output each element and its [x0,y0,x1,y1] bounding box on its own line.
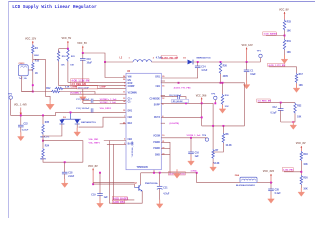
test point TP4 [202,134,209,141]
svg-text:86.7K: 86.7K [40,158,46,160]
wire right stubs [161,81,165,123]
svg-text:FB1: FB1 [156,86,161,88]
svg-text:100K: 100K [34,55,40,57]
svg-text:4-OD1_TY1_FB1: 4-OD1_TY1_FB1 [174,87,192,90]
resistor R18 [300,151,308,166]
wire VIN drop [105,62,127,78]
svg-text:LCD Supply With Linear Regulat: LCD Supply With Linear Regulator [12,5,97,10]
wire R4-R10 [32,54,34,62]
capacitor C28 [268,183,281,199]
svg-text:D1: D1 [183,57,187,59]
net label 3-OD_BASE1 b [112,197,129,201]
svg-text:PGND: PGND [153,142,160,144]
resistor R30 [300,175,308,191]
resistor R33 [283,20,291,33]
svg-text:0.1uF: 0.1uF [271,113,278,115]
svg-text:C15 | 3.3nF: C15 | 3.3nF [78,87,90,89]
ground COMP [46,100,54,110]
svg-text:C10: C10 [87,59,92,61]
svg-text:R4: R4 [35,47,39,50]
ground rail [173,169,180,178]
svg-text:3-5_REG_EN: 3-5_REG_EN [72,84,87,86]
diode D1 [183,57,211,64]
svg-text:10K: 10K [287,30,292,32]
wire D3 right leg [76,124,78,132]
svg-text:3-OD_FB1: 3-OD_FB1 [283,170,294,172]
power flag VCC_12V [25,37,36,44]
capacitor C22 [18,115,29,136]
svg-text:1: 1 [129,57,131,59]
ground C21 [156,200,163,209]
resistor R24 [40,145,50,161]
svg-text:GND: GND [155,154,160,156]
svg-text:VCOM: VCOM [153,136,160,138]
capacitor C18 [62,162,75,183]
wire rail step [197,173,240,183]
svg-text:1uF: 1uF [104,197,109,199]
resistor R23 [67,49,76,67]
svg-text:0.22uF: 0.22uF [22,129,29,131]
wire L2 to D1 [151,61,187,63]
wire D3 to divider mid [44,124,62,136]
svg-text:BLM18AG102SN1D: BLM18AG102SN1D [236,184,255,187]
svg-text:VCC_12V: VCC_12V [25,37,36,40]
power flag VCC_8V bot [88,165,98,185]
svg-text:4.3K: 4.3K [65,86,70,89]
wire 5V to L2 [82,52,105,62]
svg-text:1uF: 1uF [195,156,200,158]
ground REG_EN [290,121,297,129]
svg-text:FB2: FB2 [128,117,133,119]
svg-text:C22: C22 [24,123,29,125]
ground R7 [210,163,217,172]
svg-text:VCC_5V: VCC_5V [62,37,72,40]
power flag VCC_8V mid [296,142,306,151]
ground C19 [97,199,104,208]
svg-text:806K,1%: 806K,1% [40,136,49,138]
op-amp U3 TPS65105 [123,70,165,170]
capacitor C12 [271,103,284,122]
ground R31 [281,55,288,64]
wire 1.17V EN [269,67,297,73]
net label 3-OD_FB1 r [282,168,301,172]
wire IC gnd stubs [161,142,170,172]
wire CM13 to chain [22,70,33,92]
resistor R31 [283,39,291,54]
svg-text:C19: C19 [91,194,96,196]
wire base label row [113,199,134,201]
wire bead out [257,182,273,184]
resistor R26 [219,62,228,78]
svg-text:C13 | 10.22uF: C13 | 10.22uF [76,108,90,110]
wire FB2 row [79,117,126,127]
svg-text:2: 2 [153,57,155,59]
wire REF row [120,123,126,125]
svg-text:EN: EN [128,80,132,82]
wire R33-R31 [284,31,286,40]
wire OUT3 rail [161,103,213,125]
svg-text:C18: C18 [68,173,73,175]
diode pair D3 BAT54SW [59,111,96,124]
resistor R36 [221,82,229,109]
test point TP6 [8,94,13,116]
wire COMP net [64,87,127,89]
svg-text:4.7uF: 4.7uF [201,69,208,72]
resistor R13 inline [55,87,64,89]
svg-text:PGND: PGND [153,148,160,150]
svg-text:10K: 10K [287,52,292,54]
net label 3-VGG_1_3v5 [168,172,185,176]
svg-text:U3: U3 [127,70,131,73]
svg-text:TP4: TP4 [202,134,207,137]
capacitor C19 [91,172,108,203]
svg-text:C28: C28 [275,189,280,191]
svg-text:VCOMIN: VCOMIN [128,92,137,94]
page border top [8,1,315,3]
capacitor C10 [80,53,92,97]
resistor R5 boxed [172,99,189,103]
wire base rail lower [93,184,134,187]
net label 3-5_REG_EN left [71,82,86,86]
net label 4-OD1_IND [161,56,179,60]
svg-text:C2-MODE: C2-MODE [150,99,161,101]
svg-text:10K: 10K [297,117,302,119]
ground C28 [268,195,275,204]
wire VCOM net [161,137,207,139]
ground C1 [243,80,250,89]
wire OUT2 loop [202,125,245,127]
svg-text:(LIGHTS): (LIGHTS) [170,123,180,125]
svg-text:R12: R12 [46,88,51,90]
resistor R35 [40,114,50,138]
power flag VCC_5V [62,37,72,49]
power flag VCC_8V top [279,8,289,19]
svg-text:11: 11 [123,92,126,94]
svg-text:Q1: Q1 [134,183,138,185]
net label VCOM_1_3v6 [187,135,202,137]
wire R26 to FB1 [220,74,222,84]
ferrite bead FB4 [235,174,257,187]
svg-text:VCC_8V: VCC_8V [279,8,289,11]
label COMP parts [65,86,106,90]
svg-text:16: 16 [162,85,165,87]
svg-text:VCC_8V: VCC_8V [296,142,306,145]
wire R12 row [22,92,96,95]
wire C1- row [83,101,126,105]
svg-text:R30: R30 [303,177,308,179]
svg-text:TP5: TP5 [211,94,216,96]
test point TP1 [257,50,262,62]
svg-text:10K: 10K [299,85,304,87]
resistor R4 [32,45,40,58]
inductor L2 [120,56,163,62]
net label 3-VDD_1_3v6 [191,171,198,174]
junction R26 [220,61,222,63]
svg-text:PMBT2222A: PMBT2222A [145,182,158,185]
page border left [8,1,10,218]
wire VGL rail [11,112,127,116]
wire gnd jog [46,92,51,101]
svg-text:C14: C14 [201,65,206,68]
svg-text:VIN: VIN [128,77,132,79]
wire VCOMIN [70,93,127,95]
svg-text:VGL_1_4V5: VGL_1_4V5 [14,104,27,107]
power flag VCC_3V6 [196,94,207,104]
net label 4-OD_1.17V_EN [268,63,286,67]
svg-text:R23: R23 [71,56,76,58]
capacitor C14 [161,62,208,78]
ground C10 [80,93,87,102]
wire FB4 net [104,141,126,204]
svg-text:R17: R17 [299,74,304,76]
svg-text:C1+: C1+ [128,99,133,101]
svg-text:VGL_DRV1: VGL_DRV1 [100,108,112,110]
wire D1 to 12V node [193,61,261,63]
svg-text:12: 12 [162,98,165,100]
wire divider mid [43,135,83,163]
net label 3-5_REG_EN [257,99,271,103]
svg-text:VCC_12V: VCC_12V [242,44,253,47]
junction L2 in [104,61,106,63]
wire R18-R30 [300,161,302,175]
svg-text:TP1: TP1 [257,50,262,52]
filter CM13 [18,63,28,80]
svg-text:FB4: FB4 [235,174,240,177]
svg-text:VGL_REF1: VGL_REF1 [89,143,101,145]
title [12,5,97,10]
svg-text:4-OD_1.17V_EN: 4-OD_1.17V_EN [72,80,90,83]
net label 4-OD1_1Y_FB1 [174,82,192,90]
ground C18 [61,179,68,188]
wire BASE net [107,144,126,200]
wire FB1 net [161,83,245,126]
svg-text:COMP: COMP [71,87,78,89]
svg-text:FB4: FB4 [128,138,133,141]
net label VGL_FB1 [89,139,100,141]
svg-text:2.2uF: 2.2uF [68,176,75,178]
net label VCOMIN_1 [70,93,82,95]
svg-text:R33: R33 [287,21,292,23]
svg-text:1K: 1K [35,73,38,75]
ground R17 [293,84,300,93]
capacitor C1 [244,62,256,84]
svg-text:VCOM_1_3v6: VCOM_1_3v6 [187,135,202,137]
svg-text:BAT54SWT1G: BAT54SWT1G [81,121,96,124]
wire EN net [68,62,126,83]
resistor R32 [294,103,302,119]
svg-text:VCOMC+_1_3v6: VCOMC+_1_3v6 [100,99,118,101]
svg-text:9: 9 [162,104,164,106]
svg-text:MBR0530T1G: MBR0530T1G [197,57,211,59]
svg-text:4: 4 [162,115,164,118]
power arrow VGL [20,108,22,116]
wire rail to L2 [105,61,133,63]
svg-text:10K: 10K [70,65,74,67]
svg-text:R7: R7 [215,150,219,152]
svg-text:10.2K: 10.2K [226,145,232,147]
svg-text:C21: C21 [163,188,168,190]
wire R30 gnd [300,185,302,192]
svg-text:R35: R35 [45,122,50,124]
power flag VCC_3V3 [263,170,275,183]
capacitor C8 [161,95,187,104]
svg-text:36: 36 [123,79,126,81]
wire REG_EN net [59,62,126,86]
ground C16 [188,157,195,166]
svg-text:10uF: 10uF [250,74,256,76]
svg-text:DR1: DR1 [128,111,133,113]
svg-text:OUT3: OUT3 [154,117,161,119]
svg-text:THERMAL_GND: THERMAL_GND [131,141,134,158]
net label 4-OD_1.17V_EN left [71,79,89,83]
svg-text:DR1: DR1 [155,77,160,79]
power flag VCC_5V in [77,42,87,53]
svg-text:C12: C12 [273,107,278,109]
wire R17 gnd [296,83,298,88]
junction divider [42,140,44,142]
wire join C12 R32 [281,114,295,125]
wire divider bottom [43,159,83,164]
ground C22 [18,132,25,141]
svg-text:10K: 10K [303,189,308,191]
ground R30 [298,188,305,197]
capacitor C13 row [76,108,112,112]
capacitor C21 [157,172,170,204]
svg-text:10K: 10K [61,65,65,67]
wire Q1 emitter [109,191,142,203]
svg-text:VCOMC-_1_3v6: VCOMC-_1_3v6 [100,102,117,104]
svg-text:R16: R16 [62,56,67,58]
svg-text:447K: 447K [223,75,229,78]
resistor R16 [57,51,66,67]
svg-text:R8: R8 [226,134,230,136]
svg-text:R5 | 49.9K: R5 | 49.9K [173,100,183,103]
svg-text:R18: R18 [303,154,308,156]
resistor R17 [295,73,303,87]
svg-text:10: 10 [162,135,165,137]
svg-text:R36: R36 [225,95,230,97]
svg-text:0.1uF: 0.1uF [275,193,282,195]
wire pullup tee [59,48,69,53]
ground D3 [74,128,81,137]
svg-text:C1-: C1- [128,102,132,104]
wire R10 bypass [33,59,46,91]
svg-text:TPS65105: TPS65105 [137,166,149,169]
svg-text:TP6: TP6 [8,94,13,96]
svg-text:52.4K: 52.4K [213,162,219,165]
svg-text:SUPP: SUPP [154,105,161,107]
svg-text:TxP_32L: TxP_32L [19,78,28,80]
svg-text:R32: R32 [297,105,302,107]
svg-text:COMP: COMP [128,86,135,88]
test point TP5 [211,94,217,105]
wire base rail upper [93,182,134,184]
svg-text:R10: R10 [35,60,40,62]
wire R10 down [32,72,34,93]
capacitor C16 [188,138,199,161]
resistor R12 inline [46,88,60,93]
svg-text:DVR: DVR [128,83,133,85]
net label VGL_1_4V5 [14,104,27,107]
svg-text:R24: R24 [45,145,50,148]
svg-text:VCC_3V3: VCC_3V3 [263,170,275,173]
net label 4-LIGHT_EN [170,123,180,125]
wire bottom rail [141,170,197,174]
wire OUT3 row [161,103,202,126]
svg-text:L2: L2 [120,57,123,59]
power flag VCC_12V out [242,44,253,63]
svg-text:C1: C1 [250,70,254,72]
transistor Q1 [134,173,158,192]
svg-text:51K: 51K [225,106,229,108]
svg-text:VCC_8V: VCC_8V [88,165,98,168]
wire REG_EN row [258,102,295,104]
svg-text:3-OD_FB1: 3-OD_FB1 [113,201,125,204]
svg-text:4-OD1_IND_SW: 4-OD1_IND_SW [162,56,179,59]
svg-text:4.7uF: 4.7uF [163,193,170,196]
svg-text:VGL_FB1: VGL_FB1 [89,139,100,141]
svg-text:10uF: 10uF [87,62,93,64]
svg-text:10K: 10K [303,164,308,166]
svg-text:COMP: COMP [100,87,107,89]
ground R36 [219,105,226,114]
net label 3-OD_BASE1 [263,32,285,36]
svg-text:13: 13 [123,98,126,100]
svg-text:15: 15 [123,110,126,112]
svg-text:R31: R31 [287,41,292,43]
svg-text:REF: REF [128,123,133,125]
svg-text:C16: C16 [195,152,200,154]
wire R31 gnd [284,50,286,59]
resistor R7 [212,126,220,167]
resistor R8 [213,126,232,152]
svg-text:VCC_3V6: VCC_3V6 [196,94,207,97]
net label VGL_REF1 [89,143,101,145]
svg-text:VCC_5V: VCC_5V [77,42,87,45]
resistor R10 [32,60,40,75]
svg-text:R26: R26 [223,65,228,67]
capacitor C17 row [76,99,126,103]
net label 3-OD_FB1 b [112,200,125,204]
junction C14 [197,61,199,63]
